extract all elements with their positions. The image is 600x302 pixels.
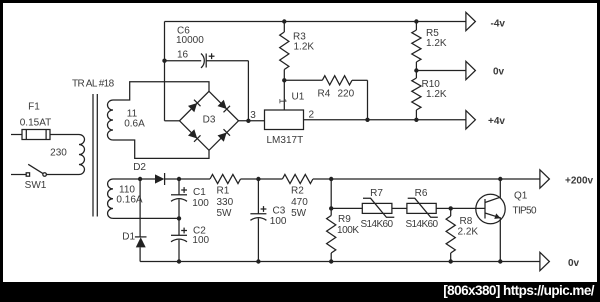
resistor R9 [327,216,336,254]
resistor R10 [415,71,417,79]
node R3 top [282,19,286,23]
svg-text:TIP50: TIP50 [513,206,537,217]
resistor R8 [450,208,452,216]
svg-text:+200v: +200v [565,176,594,187]
svg-text:R1: R1 [217,186,230,197]
terminal -4v arrow [466,12,476,30]
svg-text:1: 1 [277,98,288,104]
svg-text:100K: 100K [337,225,359,236]
svg-text:0v: 0v [493,67,505,78]
svg-text:+4v: +4v [488,116,505,127]
svg-text:D3: D3 [203,115,216,126]
capacitor C6 [165,60,202,62]
svg-text:R7: R7 [370,188,383,199]
svg-text:100: 100 [192,235,209,246]
svg-text:C1: C1 [193,187,206,198]
wire mains neutral input [11,174,26,176]
diode D1 [135,236,147,238]
wire 0v output [416,70,466,72]
capacitor C1 [178,179,180,195]
svg-text:D1: D1 [122,231,135,242]
terminal +4v arrow [466,111,476,129]
resistor R4 [284,79,322,81]
svg-text:2.2K: 2.2K [458,227,479,238]
wire to bridge minus corner [165,120,180,122]
node D1 D2 junction [138,177,142,181]
wire bottom rail [140,261,540,263]
svg-text:R4: R4 [318,89,331,100]
node C2 bottom [177,259,181,263]
transformer TR AL #18 core [92,94,94,217]
wire U1 pin2 output rail [304,119,466,121]
resistor R2 [258,178,282,180]
footer watermark bar [0,282,600,302]
svg-text:1.2K: 1.2K [426,89,447,100]
svg-text:0.16A: 0.16A [116,194,142,205]
svg-text:R6: R6 [415,188,428,199]
wire top negative rail [165,21,466,23]
node C6 minus junction [162,59,166,63]
node collector junction [498,177,502,181]
resistor R1 [179,178,210,180]
wire fuse to primary [50,134,79,136]
svg-text:220: 220 [338,89,355,100]
terminal 0v bottom arrow [540,252,550,270]
diode D3 top-left [188,103,197,112]
wire bridge plus to U1 pin3 [239,120,265,122]
svg-text:470: 470 [291,197,308,208]
wire R6 to base [436,207,451,209]
wire secondary bottom lead to bridge AC2 [113,140,209,158]
resistor R5 [415,22,417,31]
varistor R7 [362,203,392,213]
svg-text:TR AL #18: TR AL #18 [72,79,115,90]
svg-text:10000: 10000 [176,35,204,46]
svg-text:R2: R2 [291,186,304,197]
svg-text:S14K60: S14K60 [406,219,439,230]
svg-text:100: 100 [192,198,209,209]
diode D3 top-right [218,100,227,109]
resistor R3 [283,22,285,33]
border frame top [0,0,600,3]
border frame right [597,0,600,302]
wire D1 branch [139,179,141,237]
transistor Q1 [476,194,505,223]
inductor secondary winding 110V [108,179,113,218]
node R5 top [414,19,418,23]
svg-text:-4v: -4v [491,19,506,30]
wire to +200v arrow [500,178,540,180]
node C1 C2 midpoint [177,216,181,220]
wire mains live input [11,134,22,136]
svg-text:230: 230 [50,148,67,159]
node ADJ junction [282,78,286,82]
wire to R7 [331,207,362,209]
svg-text:Q1: Q1 [514,191,528,202]
diode D3 bottom-left [188,129,197,138]
svg-text:3: 3 [250,110,256,121]
svg-text:5W: 5W [291,208,307,219]
svg-text:U1: U1 [292,92,305,103]
terminal 0v arrow [466,61,476,79]
node C3 bottom [256,259,260,263]
wire mid rail left [113,178,140,180]
wire secondary top lead to bridge AC1 [113,82,209,100]
node bridge plus junction [246,119,250,123]
svg-text:5W: 5W [217,208,233,219]
wire secondary to midpoint [113,217,179,219]
svg-text:100: 100 [270,216,287,227]
node C1 top junction [177,177,181,181]
node varistor line junction [329,206,333,210]
svg-text:S14K60: S14K60 [361,219,394,230]
wire mid rail to collector [331,178,500,180]
inductor primary winding 230V [79,135,85,175]
svg-text:R8: R8 [460,216,473,227]
wire R9 branch vertical [330,179,332,208]
svg-text:SW1: SW1 [25,180,47,191]
node C3 top junction [256,177,260,181]
node R8 bottom [449,259,453,263]
svg-text:F1: F1 [28,102,40,113]
svg-text:1.2K: 1.2K [294,42,315,53]
svg-text:R9: R9 [338,214,351,225]
node +4v junction [414,118,418,122]
inductor secondary winding 11V [107,100,113,140]
wire to D2 [140,178,155,180]
node 0v junction [414,68,418,72]
svg-text:0.15AT: 0.15AT [20,118,52,129]
node R9 branch junction [329,177,333,181]
svg-text:0v: 0v [568,258,580,269]
svg-text:2: 2 [309,110,315,121]
wire R4 to output [367,80,369,120]
wire U1 pin1 ADJ [283,80,285,110]
varistor R6 [407,203,436,213]
svg-text:16: 16 [177,50,189,61]
wire negative rail vertical [164,22,166,121]
svg-text:1.2K: 1.2K [426,38,447,49]
svg-text:0.6A: 0.6A [124,119,145,130]
diode D3 bottom-right [218,133,227,142]
diode D2 [155,174,164,183]
node emitter bottom [498,259,502,263]
border frame left [0,0,3,302]
terminal +200v arrow [540,170,550,188]
bridge rectifier D3 diamond [180,91,239,150]
wire C6 plus to bridge plus [247,61,249,121]
svg-text:LM317T: LM317T [267,135,304,146]
capacitor C3 [257,179,259,214]
wire base [451,207,485,209]
op-amp U1 LM317T regulator box [265,110,304,130]
switch SW1 [26,173,29,176]
wire switch to primary [46,174,79,176]
svg-text:D2: D2 [133,162,146,173]
node R4 output junction [365,118,369,122]
fuse F1 [22,130,50,140]
capacitor C2 [178,218,180,235]
node R8 base junction [449,206,453,210]
svg-text:330: 330 [217,197,234,208]
node R9 bottom [329,259,333,263]
wire R7 to R6 [392,207,407,209]
